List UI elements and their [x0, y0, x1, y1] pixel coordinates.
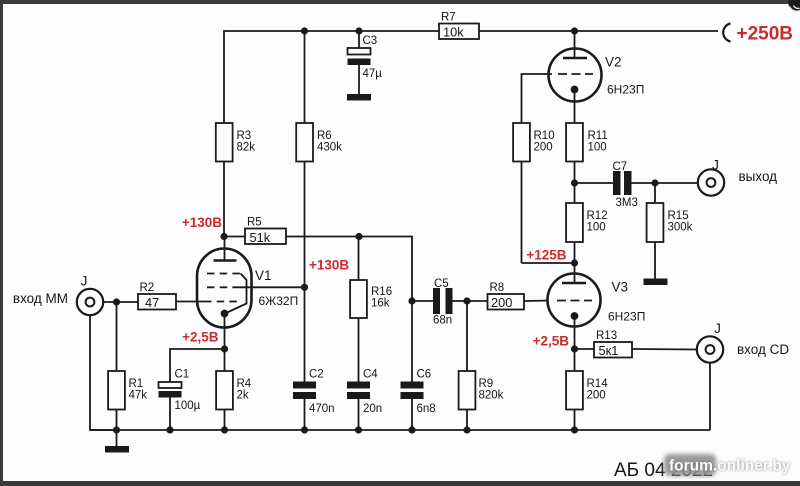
svg-text:R11: R11	[588, 130, 608, 142]
svg-text:16k: 16k	[371, 298, 390, 310]
svg-text:R8: R8	[490, 282, 505, 294]
node V2 anode rail	[571, 27, 578, 34]
node C3 top	[355, 27, 362, 34]
svg-text:820k: 820k	[479, 390, 504, 402]
capacitor C1	[159, 369, 201, 431]
node V3 anode	[571, 259, 578, 266]
svg-text:вход CD: вход CD	[737, 342, 789, 357]
svg-text:вход ММ: вход ММ	[13, 291, 68, 306]
node V1 cathode	[221, 345, 228, 352]
ground R15	[644, 279, 668, 286]
wire V1 screen to node	[238, 286, 305, 288]
svg-text:R3: R3	[237, 130, 252, 142]
svg-text:100: 100	[588, 142, 607, 154]
resistor R9	[459, 301, 504, 430]
resistor R16	[350, 237, 392, 382]
node rail C4	[355, 426, 362, 433]
node rail R14	[571, 426, 578, 433]
resistor R11	[566, 123, 608, 183]
svg-text:C7: C7	[613, 161, 628, 173]
tube V1	[197, 237, 298, 350]
svg-text:68n: 68n	[433, 315, 452, 327]
svg-text:forum.onliner.by: forum.onliner.by	[669, 458, 791, 475]
corner icon	[788, 0, 800, 12]
wire R3 to anode node	[223, 162, 225, 237]
svg-text:51k: 51k	[250, 230, 271, 245]
node rail R4	[221, 426, 228, 433]
node rail C2	[301, 426, 308, 433]
svg-text:V3: V3	[612, 280, 629, 295]
svg-text:R4: R4	[237, 378, 252, 390]
+250V connector	[723, 24, 793, 45]
svg-text:J: J	[714, 321, 721, 336]
svg-text:R14: R14	[587, 378, 609, 390]
node R1 top	[113, 298, 120, 305]
svg-text:R2: R2	[140, 282, 155, 294]
node R15 top	[651, 179, 658, 186]
svg-text:C6: C6	[417, 369, 432, 381]
capacitor C7	[575, 161, 698, 209]
resistor R14	[566, 349, 608, 430]
ground main	[105, 430, 129, 453]
frame left bar	[0, 0, 3, 486]
wire jack stem to rail	[90, 315, 117, 430]
svg-text:200: 200	[587, 390, 606, 402]
resistor R2	[138, 282, 176, 310]
wire CD jack stem	[709, 363, 711, 430]
node rail R1	[113, 426, 120, 433]
wire R6 to screen node	[304, 162, 306, 288]
svg-text:430k: 430k	[317, 142, 342, 154]
node V3 cathode	[571, 345, 578, 352]
wire jack to R2	[103, 301, 138, 303]
svg-text:C5: C5	[434, 278, 449, 290]
wire C6 column	[411, 301, 413, 382]
svg-text:6Н23П: 6Н23П	[608, 310, 645, 324]
svg-text:20n: 20n	[363, 403, 382, 415]
svg-text:+125В: +125В	[526, 248, 566, 263]
resistor R13	[575, 330, 633, 358]
svg-text:+2,5В: +2,5В	[533, 334, 570, 349]
svg-text:+250В: +250В	[737, 24, 794, 45]
bottom rail	[90, 429, 710, 431]
capacitor C3	[348, 31, 383, 94]
node rail R9	[463, 426, 470, 433]
svg-text:+2,5В: +2,5В	[182, 330, 219, 345]
resistor R12	[566, 183, 608, 263]
svg-text:C3: C3	[363, 35, 378, 47]
resistor R7	[439, 12, 479, 40]
node +130V anode	[220, 233, 227, 240]
wire R8 to V3 grid	[524, 300, 552, 303]
svg-text:470n: 470n	[309, 403, 335, 415]
svg-text:47µ: 47µ	[363, 68, 383, 80]
resistor R1	[108, 302, 147, 430]
svg-text:R1: R1	[129, 378, 144, 390]
node R6 top	[301, 27, 308, 34]
svg-text:V1: V1	[255, 268, 272, 283]
svg-text:5к1: 5к1	[599, 343, 619, 358]
svg-text:+130В: +130В	[182, 215, 222, 230]
svg-text:82k: 82k	[237, 142, 256, 154]
jack J input MM	[77, 274, 103, 316]
svg-text:C1: C1	[175, 369, 190, 381]
wire to C6 column	[359, 237, 412, 302]
tube V2	[549, 31, 645, 123]
resistor R8	[488, 282, 525, 310]
svg-text:C4: C4	[363, 369, 378, 381]
resistor R6	[296, 31, 342, 162]
wire R13 to CD jack	[632, 348, 697, 351]
frame bottom bar	[0, 481, 800, 486]
svg-text:6n8: 6n8	[417, 403, 436, 415]
svg-text:10k: 10k	[443, 25, 464, 40]
resistor R10	[513, 123, 555, 263]
resistor R3	[216, 123, 255, 162]
node R16 top	[355, 233, 362, 240]
svg-text:200: 200	[491, 295, 512, 310]
svg-text:47: 47	[145, 295, 159, 310]
svg-text:+130В: +130В	[309, 258, 349, 273]
wire R2 to V1 grid	[176, 301, 204, 303]
svg-text:100: 100	[587, 222, 606, 234]
svg-text:R10: R10	[534, 130, 555, 142]
resistor R15	[647, 183, 693, 279]
wire top rail right segment	[479, 30, 718, 32]
svg-text:R5: R5	[247, 217, 262, 229]
node C7 left	[571, 179, 578, 186]
capacitor C5	[412, 278, 488, 327]
frame top bar	[0, 0, 800, 4]
svg-text:6Ж32П: 6Ж32П	[259, 294, 299, 308]
svg-text:3М3: 3М3	[616, 197, 638, 209]
svg-text:R13: R13	[596, 330, 617, 342]
svg-text:V2: V2	[605, 55, 622, 70]
wire R5 to R16 node	[286, 236, 359, 238]
svg-text:R9: R9	[479, 378, 494, 390]
wire V2 grid to R10	[522, 74, 553, 123]
resistor R4	[216, 349, 252, 430]
svg-text:200: 200	[534, 142, 553, 154]
capacitor C2	[293, 287, 335, 430]
svg-text:100µ: 100µ	[175, 400, 201, 412]
jack J output	[698, 158, 724, 196]
svg-text:300k: 300k	[668, 222, 693, 234]
node rail C1	[166, 426, 173, 433]
jack J input CD	[697, 321, 723, 363]
wire cathode to C1	[170, 349, 225, 382]
svg-text:выход: выход	[739, 169, 778, 184]
svg-text:R6: R6	[317, 130, 332, 142]
svg-text:2k: 2k	[237, 390, 249, 402]
svg-text:R16: R16	[371, 286, 392, 298]
tube V3	[548, 263, 646, 349]
node C5 left	[408, 297, 415, 304]
svg-text:6Н23П: 6Н23П	[607, 83, 644, 97]
ground C3	[347, 94, 371, 101]
svg-text:J: J	[81, 274, 88, 289]
node R9 top	[463, 297, 470, 304]
svg-text:47k: 47k	[129, 390, 148, 402]
node rail C6	[408, 426, 415, 433]
capacitor C6	[401, 369, 436, 431]
svg-text:R12: R12	[587, 210, 608, 222]
svg-text:C2: C2	[309, 369, 324, 381]
watermark forum.onliner.by	[664, 454, 791, 476]
svg-text:R15: R15	[668, 210, 689, 222]
node screen	[301, 284, 308, 291]
wire R10 to V3 anode node	[522, 262, 575, 264]
resistor R5	[224, 217, 286, 246]
capacitor C4	[347, 369, 382, 431]
wire top rail left segment	[224, 31, 439, 123]
svg-text:R7: R7	[441, 12, 456, 24]
